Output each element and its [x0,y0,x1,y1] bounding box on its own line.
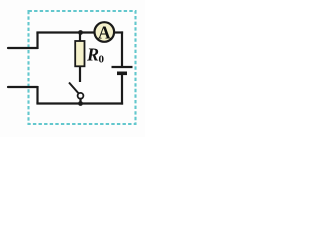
wire: top wire to ammeter [36,31,95,33]
svg-text:R: R [86,45,99,65]
battery long plate (+) [112,66,133,68]
wire: switch to bottom wire [79,99,81,104]
wire: right drop to battery [121,31,123,67]
ammeter A [95,22,115,42]
svg-text:0: 0 [99,54,105,66]
switch pivot circle [78,93,84,99]
wire: top wire right of ammeter [114,31,123,33]
wire: battery to bottom wire [121,73,123,104]
node: junction dot at resistor branch [78,30,83,35]
wire: upper-left riser [36,33,38,50]
wire: upper-left external lead [8,47,38,49]
switch S blade (open) [69,83,79,94]
wire: lower-left riser [36,86,38,104]
node: junction dot on bottom wire [78,101,83,106]
wire: resistor bottom stub [79,66,81,82]
resistor R0 body [75,41,84,66]
battery short plate (-) [117,72,127,76]
dashed boundary box [29,11,136,124]
wire: bottom wire [36,102,123,104]
wire: lower-left external lead [8,86,38,88]
svg-text:A: A [98,23,111,43]
wire: resistor top stub [79,33,81,43]
